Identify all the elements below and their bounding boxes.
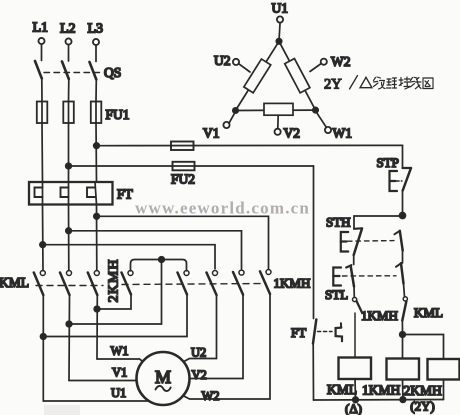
node coil rail KML <box>353 397 359 403</box>
svg-text:KML: KML <box>327 382 357 397</box>
wire KML aux to coil junction <box>401 321 403 335</box>
wire KML2 out to V1 <box>68 295 71 381</box>
node 2KMH bar center <box>159 257 165 263</box>
contact 1KMH aux <box>353 297 398 323</box>
label winding diagram title <box>324 76 433 93</box>
fuse FU2 lower <box>171 162 195 187</box>
wire L1 switch to fuse <box>41 79 43 102</box>
wire L3 switch to fuse <box>95 80 97 102</box>
wire control line 1 <box>97 144 403 146</box>
node coil rail 1KMH <box>400 397 406 403</box>
winding U (left side) <box>244 59 271 93</box>
svg-text:2Y: 2Y <box>324 77 342 93</box>
contact KML pole3 <box>88 271 100 296</box>
dashed STH link <box>348 240 395 243</box>
node W2 term <box>310 54 351 72</box>
contact KML pole1 <box>34 271 46 296</box>
contact KML aux lower <box>402 297 443 321</box>
dashed STL link <box>343 275 397 277</box>
svg-text:U2: U2 <box>214 53 231 68</box>
contact KMH aux upper (right col) <box>394 231 402 251</box>
button STL <box>325 265 354 302</box>
svg-text:V2: V2 <box>284 126 301 141</box>
wire STL to 1KMH aux <box>353 287 355 298</box>
switch QS <box>35 61 121 80</box>
wire bottom rail <box>314 399 444 402</box>
wire feed L2 to 1KMH pole2 <box>69 231 242 269</box>
node L2 <box>60 22 76 62</box>
wire L2 switch to fuse <box>68 79 70 102</box>
coil KML <box>327 358 371 400</box>
button STP <box>377 155 412 191</box>
wire KML3 out to W1 <box>96 295 98 359</box>
wire KML1 out to U1 <box>42 295 44 401</box>
svg-text:L2: L2 <box>60 22 76 37</box>
svg-text:U1: U1 <box>111 386 126 400</box>
svg-text:2KMH: 2KMH <box>404 383 443 398</box>
wire STH to STL <box>353 255 355 265</box>
svg-text:KML: KML <box>0 275 29 290</box>
contact 2KMH pole2 <box>178 271 190 295</box>
svg-text:W1: W1 <box>333 126 353 141</box>
wire triangle bottom side <box>236 109 316 111</box>
svg-text:V1: V1 <box>203 126 220 141</box>
svg-text:(2Y): (2Y) <box>410 399 435 414</box>
wire V1 to motor <box>69 380 137 382</box>
dashed contact link row <box>36 285 103 287</box>
wire line B V1 to bar center <box>69 323 162 325</box>
svg-text:STP: STP <box>377 155 399 170</box>
svg-text:W1: W1 <box>111 344 129 358</box>
node W1 branch <box>94 306 100 312</box>
node junction L2 to FU2 line2 <box>66 163 72 169</box>
svg-text:L3: L3 <box>88 22 104 37</box>
wire to 1KMH coil <box>402 335 404 359</box>
coil 1KMH <box>362 359 419 400</box>
motor M <box>137 352 190 405</box>
wire triangle left side <box>236 41 280 110</box>
wire V2 motor to 1KMH pole2 <box>190 295 243 379</box>
svg-text:FU1: FU1 <box>106 107 130 122</box>
node U1 term <box>272 1 289 42</box>
node V1 term <box>203 113 235 141</box>
node L3 feed junction <box>94 214 100 220</box>
svg-text:1KMH: 1KMH <box>274 276 311 291</box>
wire to KML coil <box>354 313 356 358</box>
winding W (right side) <box>285 59 310 93</box>
wire L1 fuse to FT <box>41 123 44 182</box>
wire triangle right side <box>279 41 316 110</box>
contact 1KMH pole2 <box>233 270 244 295</box>
contact 1KMH pole1 <box>207 271 218 296</box>
fuse FU2 upper <box>171 142 194 151</box>
svg-text:W2: W2 <box>331 54 351 69</box>
svg-text:1KMH: 1KMH <box>362 383 401 398</box>
wire W2 motor to 1KMH pole3 <box>181 294 270 399</box>
svg-text:U1: U1 <box>272 1 289 16</box>
node bottom-right vertex <box>313 107 318 112</box>
node control junction <box>400 213 406 219</box>
node L1 <box>33 21 49 61</box>
svg-text:KML: KML <box>414 305 443 320</box>
wire right col A-B <box>402 251 404 264</box>
wire line C U1 to 2KMH pole2 <box>43 295 187 337</box>
contact KML pole2 <box>60 271 72 296</box>
thermal relay FT heater box <box>29 182 134 205</box>
button STH <box>326 215 362 256</box>
wire branch to 2KMH coil <box>403 335 444 360</box>
svg-text:V2: V2 <box>192 368 207 382</box>
svg-text:FU2: FU2 <box>171 172 195 187</box>
svg-text:(Δ): (Δ) <box>345 401 362 415</box>
wire bar center to V1 row <box>161 260 163 325</box>
wire STP drop <box>402 145 404 167</box>
wire L2 fuse to FT <box>68 123 70 182</box>
node L3 <box>88 22 104 62</box>
wire right col B to KML aux <box>404 284 405 297</box>
wire feed L1 to 1KMH pole1 <box>43 245 215 269</box>
wire L3 FT to KML contact <box>96 205 98 271</box>
svg-text:STH: STH <box>326 215 351 230</box>
contact FT control <box>291 166 342 400</box>
contact KML aux mid (right col) <box>396 263 404 283</box>
node coil branch junction <box>400 332 406 338</box>
wire L3 fuse to FT <box>95 123 98 182</box>
wire 2KMH bridge bar <box>131 260 187 271</box>
svg-text:QS: QS <box>104 65 121 80</box>
svg-text:2KMH: 2KMH <box>107 259 122 303</box>
wire L2 FT to KML contact <box>68 205 70 271</box>
wire line A W1 to 2KMH pole1 <box>97 295 131 310</box>
node V2 term <box>275 115 301 140</box>
svg-text:STL: STL <box>325 287 348 302</box>
paper smudge bottom <box>44 405 80 415</box>
node bottom-left vertex <box>233 108 238 113</box>
svg-text:www.eeworld.com.cn: www.eeworld.com.cn <box>135 199 310 218</box>
node U2 term <box>214 53 250 72</box>
contact 1KMH pole3 <box>260 270 271 295</box>
wire L1 FT to KML contact <box>42 205 45 271</box>
svg-text:L1: L1 <box>33 21 49 36</box>
fuse FU1 <box>37 102 130 124</box>
wire feed L3 to 1KMH pole3 <box>97 216 269 268</box>
wire branch to STH <box>354 216 403 229</box>
svg-text:W2: W2 <box>202 389 220 403</box>
wire U1 to motor <box>43 400 150 402</box>
svg-text:FT: FT <box>291 325 306 340</box>
svg-text:U2: U2 <box>191 346 206 360</box>
svg-text:V1: V1 <box>112 366 127 380</box>
wire STP to junction <box>402 191 404 216</box>
winding V (bottom) <box>264 103 293 115</box>
node L2 feed junction <box>66 228 72 234</box>
svg-text:FT: FT <box>117 187 134 202</box>
contact 2KMH pole1 <box>122 271 134 295</box>
node L1 feed junction <box>40 242 46 248</box>
node W1 term <box>317 113 352 141</box>
node V1 branch <box>66 321 72 327</box>
svg-text:M: M <box>155 367 171 387</box>
node U1 branch <box>41 334 47 340</box>
svg-text:1KMH: 1KMH <box>361 308 398 323</box>
wire control line 2 <box>69 165 314 167</box>
node apex <box>276 39 281 44</box>
node junction L3 to FU2 line1 <box>94 143 100 149</box>
wire U2 motor to 1KMH pole1 <box>181 295 217 363</box>
wire W1 to motor <box>97 359 147 365</box>
coil 2KMH <box>404 359 460 400</box>
